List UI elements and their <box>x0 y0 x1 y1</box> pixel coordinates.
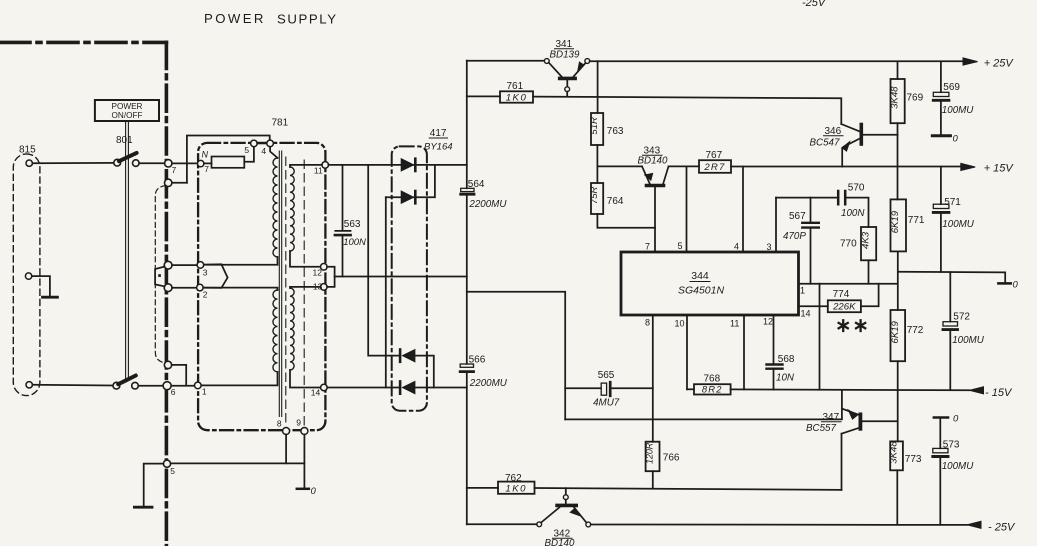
svg-text:226K: 226K <box>832 302 856 313</box>
capacitor 573 lead bottom <box>939 458 941 524</box>
wire pin7 to fuse <box>204 162 212 164</box>
secondary winding lower <box>290 288 294 370</box>
wire +25V to 763 <box>597 61 599 113</box>
wire node7 to transformer pin 7 <box>172 162 197 164</box>
capacitor 568 plates <box>767 365 783 369</box>
wire pin4 to primary coil <box>270 147 277 158</box>
svg-text:ON/OFF: ON/OFF <box>112 111 143 120</box>
wire 764 bottom to pin7 line <box>597 214 655 228</box>
wire 769 to 771 <box>897 123 899 199</box>
pin 1 line <box>799 283 898 285</box>
resistor 772 <box>891 310 906 361</box>
svg-text:POWER: POWER <box>204 11 266 26</box>
capacitor 570 <box>838 191 845 204</box>
transistor 346 emitter <box>844 139 860 147</box>
svg-text:BD139: BD139 <box>550 50 581 61</box>
node X2 on chassis <box>164 284 172 292</box>
ground bar 0 right <box>998 282 1010 285</box>
transformer pin 13 <box>321 284 328 291</box>
svg-text:8: 8 <box>645 318 650 328</box>
svg-text:6K19: 6K19 <box>890 320 901 343</box>
transistor 342 collector node <box>586 522 591 527</box>
svg-text:772: 772 <box>907 325 924 336</box>
wire 565 line right <box>612 387 653 389</box>
wire 763/764 junction to 343 emitter <box>597 165 642 167</box>
chassis ground bar <box>134 506 152 509</box>
svg-text:567: 567 <box>789 211 806 222</box>
svg-text:3: 3 <box>203 268 208 278</box>
svg-text:766: 766 <box>663 453 680 464</box>
wire 762 rail left <box>467 487 498 489</box>
svg-text:770: 770 <box>840 239 857 250</box>
resistor 762 <box>498 482 535 494</box>
svg-text:1K0: 1K0 <box>506 92 528 103</box>
transformer pin 12 <box>321 264 328 271</box>
svg-text:BY164: BY164 <box>424 142 453 153</box>
svg-text:1: 1 <box>800 286 805 296</box>
diode D1 <box>401 159 413 171</box>
wire 565-net to 347 emitter branch <box>565 390 842 419</box>
svg-text:0: 0 <box>953 134 959 145</box>
transistor 342 emitter node <box>537 522 542 527</box>
capacitor 572 plates <box>943 322 958 326</box>
wire 763 to 764 <box>596 145 598 183</box>
svg-text:14: 14 <box>801 309 811 319</box>
pin 11 stub <box>743 315 745 390</box>
transformer pin 4 <box>267 140 274 147</box>
transformer pin 11 <box>322 162 329 169</box>
capacitor 573 lead <box>939 419 941 449</box>
svg-text:815: 815 <box>19 145 36 156</box>
wire 773 to -25V rail <box>896 470 898 524</box>
secondary winding upper <box>290 167 294 251</box>
wire pin8 down to node5 line <box>285 435 287 464</box>
wire switch A to terminal 7 <box>139 162 165 164</box>
wire 770 to pin1 line <box>868 260 870 283</box>
svg-text:568: 568 <box>778 354 795 365</box>
svg-text:2R7: 2R7 <box>703 162 725 173</box>
svg-text:762: 762 <box>505 473 522 484</box>
svg-text:761: 761 <box>507 81 524 92</box>
resistor 771 <box>891 199 907 251</box>
transistor 342 base node <box>563 495 568 500</box>
node 5 on chassis <box>163 460 170 467</box>
chassis dash-dot border top <box>0 41 166 45</box>
pin 10 stub <box>686 315 688 389</box>
transistor 341 <box>549 63 562 77</box>
primary winding lower <box>273 290 278 372</box>
svg-text:11: 11 <box>730 319 739 329</box>
svg-text:801: 801 <box>116 135 133 146</box>
wire pin11 to bridge input line <box>329 164 467 166</box>
svg-text:BC547: BC547 <box>810 138 841 149</box>
wire 815 bottom to switch <box>32 384 113 387</box>
svg-text:2: 2 <box>203 290 208 300</box>
dot mark <box>158 274 161 277</box>
diode D3 <box>403 350 415 362</box>
resistor 763 <box>591 113 603 145</box>
-25V arrow <box>967 521 981 528</box>
svg-text:417: 417 <box>430 128 447 139</box>
svg-text:3K48: 3K48 <box>890 86 901 109</box>
capacitor 573 plates <box>933 448 948 452</box>
pin 4 stub <box>742 167 744 252</box>
main vertical lower (-V raw) <box>466 373 468 524</box>
transistor 346 base bar <box>859 125 863 145</box>
svg-text:- 25V: - 25V <box>988 522 1016 534</box>
svg-text:774: 774 <box>833 289 850 300</box>
screen 2 dashed <box>303 160 305 427</box>
pin 8 stub + 766 chain <box>652 315 654 442</box>
wire node A detour <box>172 365 187 386</box>
terminal 815 middle <box>25 273 31 279</box>
IC 344 <box>621 252 799 315</box>
-15V arrow <box>969 387 983 394</box>
svg-text:6K19: 6K19 <box>890 210 901 233</box>
svg-text:100MU: 100MU <box>942 461 975 472</box>
node X1 on chassis <box>164 261 172 269</box>
transistor 341 base node <box>565 87 570 92</box>
pin 5 stub <box>686 166 688 252</box>
wire pin9 down to 0 ground <box>303 435 305 488</box>
transistor 343 <box>642 166 650 184</box>
asterisks ** <box>839 320 866 331</box>
svg-text:4K3: 4K3 <box>861 231 872 249</box>
wire secondary upper to pin 12 <box>290 251 321 267</box>
capacitor 565 plates <box>601 383 606 395</box>
-25V rail left <box>467 523 537 525</box>
capacitor 571 plates <box>933 204 949 208</box>
POWER ON/OFF box <box>95 100 159 121</box>
resistor 769 <box>891 79 905 123</box>
wire pin13 to secondary lower <box>290 287 321 288</box>
transistor 342 diagonals <box>541 507 560 522</box>
switch 801 pole A contact <box>133 160 140 167</box>
svg-text:7: 7 <box>645 242 650 252</box>
resistor chain vertical top <box>897 61 899 79</box>
wire 762 rail right to 347 collector <box>535 488 842 490</box>
svg-text:769: 769 <box>907 93 924 104</box>
wire node5 to screen terminals 8 and 9 <box>171 462 305 464</box>
wire D2 anode to AC2 vertical <box>386 196 401 198</box>
wire base rail 761 left <box>467 95 500 97</box>
screen 1 dashed <box>285 157 287 427</box>
svg-text:4MU7: 4MU7 <box>593 398 620 409</box>
svg-text:2200MU: 2200MU <box>469 378 508 389</box>
wire center tap 12/13 bracket <box>327 267 335 287</box>
pin 3 stub <box>775 198 777 252</box>
svg-text:569: 569 <box>943 82 960 93</box>
svg-text:767: 767 <box>706 150 723 161</box>
svg-text:1K0: 1K0 <box>505 483 527 494</box>
capacitor 564 plates <box>461 188 474 191</box>
svg-text:BD140: BD140 <box>638 156 669 167</box>
svg-text:+ 15V: + 15V <box>984 163 1015 175</box>
svg-text:771: 771 <box>908 215 925 226</box>
svg-text:POWER: POWER <box>112 102 143 111</box>
transistor 341 emitter node <box>585 59 590 64</box>
ground bar 0 below pin9 <box>297 488 309 491</box>
svg-text:573: 573 <box>943 440 960 451</box>
svg-text:7: 7 <box>204 164 209 174</box>
fuse N <box>212 157 245 168</box>
transistor 346 collector wire <box>841 124 860 132</box>
svg-text:51R: 51R <box>589 117 600 135</box>
switch 801 pole A pivot <box>114 159 121 166</box>
capacitor 566 plates <box>460 364 473 367</box>
transformer core <box>279 151 281 417</box>
-25V rail right <box>591 524 967 526</box>
svg-text:763: 763 <box>607 126 624 137</box>
svg-text:571: 571 <box>944 197 961 208</box>
capacitor 571 lead bottom <box>940 214 942 272</box>
capacitor 567 lead <box>810 198 812 222</box>
transistor 347 collector <box>842 428 859 434</box>
switch 801 pole B contact <box>132 382 139 389</box>
wire 766 bottom <box>652 471 654 488</box>
transformer pin 7 <box>198 160 204 166</box>
svg-text:5: 5 <box>244 145 249 155</box>
capacitor 567 lead bottom <box>810 229 812 284</box>
chassis dash-dot border vertical <box>165 42 169 546</box>
0 bar above 573 <box>934 416 948 419</box>
capacitor 563 lead bottom <box>342 236 344 276</box>
svg-text:3: 3 <box>767 242 772 252</box>
svg-text:7: 7 <box>172 165 177 175</box>
svg-text:BD140: BD140 <box>545 538 576 546</box>
capacitor 563 lead top <box>342 165 344 230</box>
pin 7 stub <box>654 187 656 252</box>
transistor 347 base wire <box>862 420 897 422</box>
wire primary upper to pin 3 <box>204 257 277 265</box>
svg-text:4: 4 <box>261 146 266 156</box>
wire link node to selector vertical <box>172 182 187 184</box>
svg-text:768: 768 <box>704 374 721 385</box>
wire switch B through node 6 to transformer pin 1 <box>138 385 194 387</box>
svg-text:100MU: 100MU <box>942 219 975 230</box>
transformer pin 9 <box>301 428 308 435</box>
ground bar at 815 <box>43 296 58 299</box>
wire fuse to terminal 5 <box>244 147 254 162</box>
resistor 767 <box>699 160 731 173</box>
svg-text:8: 8 <box>277 419 282 429</box>
svg-text:SG4501N: SG4501N <box>678 285 725 297</box>
wire 774 right to pin1 line <box>861 284 879 307</box>
svg-text:0: 0 <box>1013 280 1019 291</box>
+25V rail left segment <box>467 60 545 62</box>
capacitor 569 lead <box>940 62 942 93</box>
svg-text:-25V: -25V <box>802 0 827 9</box>
transformer pin 1 <box>195 382 202 389</box>
AC2 vertical wire <box>385 197 387 387</box>
wire pin14 through D4 to main vertical <box>327 387 467 389</box>
svg-text:565: 565 <box>598 370 615 381</box>
svg-text:BC557: BC557 <box>806 423 837 434</box>
transformer pin 5 <box>251 140 258 147</box>
diode D2 <box>401 191 413 203</box>
node 7 on chassis line <box>165 160 172 167</box>
wire AC1 vertical to D3 <box>368 165 400 356</box>
terminal 815 top <box>26 160 32 166</box>
capacitor 572 lead bottom <box>949 331 951 390</box>
wire 815 middle to ground <box>32 276 50 296</box>
svg-text:3K48: 3K48 <box>889 441 900 464</box>
pin3 net to caps <box>776 197 837 199</box>
main vertical mid (0 net) <box>466 196 468 364</box>
wire primary lower to pin 1 <box>201 372 277 386</box>
svg-text:564: 564 <box>468 179 485 190</box>
+15V rail <box>731 166 961 168</box>
node A on chassis <box>164 361 171 368</box>
transformer pin 2 <box>197 284 204 291</box>
switch 801 pole B blade <box>118 376 136 385</box>
0 net wire from 771/772 junction <box>898 272 1005 283</box>
transformer pin 14 <box>321 384 328 391</box>
capacitor 563 plates <box>335 230 350 232</box>
svg-text:6: 6 <box>171 387 176 397</box>
wire D2 cathode up to D1 line <box>414 165 435 197</box>
wire secondary lower to pin 14 <box>290 370 321 388</box>
wire D3 anode down to D4 line <box>415 356 434 388</box>
wire center tap to main vertical <box>335 276 467 278</box>
wire node5 to chassis ground <box>144 464 164 506</box>
resistor 766 <box>646 442 660 472</box>
rectifier 417 outline <box>392 146 427 410</box>
svg-text:0: 0 <box>953 414 959 425</box>
svg-text:2200MU: 2200MU <box>468 199 507 210</box>
svg-text:570: 570 <box>848 183 865 194</box>
transistor 341 collector node <box>544 59 549 64</box>
transistor 347 emitter <box>842 409 858 415</box>
wire 570 to 770 <box>847 198 869 227</box>
svg-text:100MU: 100MU <box>942 105 975 116</box>
transistor 346 base wire <box>863 134 898 136</box>
svg-text:11: 11 <box>314 166 323 176</box>
svg-text:12: 12 <box>763 317 773 327</box>
resistor 774 <box>828 300 861 312</box>
svg-text:781: 781 <box>272 118 289 129</box>
wire 5 to 4 <box>257 142 267 144</box>
primary winding upper <box>273 158 278 257</box>
resistor 761 <box>500 91 533 102</box>
svg-text:+ 25V: + 25V <box>984 58 1015 70</box>
wire selector vertical to terminal 4 line <box>187 136 270 183</box>
svg-text:344: 344 <box>691 270 709 282</box>
+15V arrow <box>961 163 975 170</box>
svg-text:0: 0 <box>311 486 317 497</box>
svg-text:- 15V: - 15V <box>985 387 1013 399</box>
svg-text:1: 1 <box>202 387 207 397</box>
svg-text:120R: 120R <box>645 442 655 464</box>
wire X2 to transformer pin 2 <box>172 287 196 289</box>
svg-text:572: 572 <box>953 312 970 323</box>
svg-text:10N: 10N <box>776 373 795 384</box>
svg-text:14: 14 <box>311 388 321 398</box>
switch 801 linkage <box>126 121 129 379</box>
switch 801 pole B pivot <box>113 382 120 389</box>
node 6 on chassis <box>163 382 171 390</box>
wire 771 to 772 <box>897 251 899 310</box>
capacitor 572 lead <box>949 272 951 322</box>
svg-text:470P: 470P <box>783 231 806 242</box>
svg-text:566: 566 <box>469 355 486 366</box>
transformer pin 8 <box>283 428 290 435</box>
svg-text:100N: 100N <box>841 208 865 219</box>
svg-text:10: 10 <box>675 319 685 329</box>
svg-text:4: 4 <box>734 242 739 252</box>
wire pin1 net down to -15V rail <box>819 284 821 390</box>
wire 565 line left <box>565 387 601 389</box>
link bracket left of X nodes <box>155 267 165 287</box>
transistor 347 base bar <box>859 414 863 428</box>
pin 12 stub <box>773 315 775 363</box>
transformer 781 outline <box>198 143 325 430</box>
pin 14 line <box>799 305 828 307</box>
dashed selector loop <box>155 185 166 363</box>
svg-text:563: 563 <box>344 219 361 230</box>
svg-text:5: 5 <box>678 241 683 251</box>
transistor 342 base tick <box>565 488 567 495</box>
svg-text:SUPPLY: SUPPLY <box>277 12 338 27</box>
svg-text:773: 773 <box>905 454 922 465</box>
+25V arrow <box>963 58 978 65</box>
capacitor 571 lead <box>940 167 942 204</box>
wire 0-net to cap 565 <box>467 292 565 420</box>
wire X1 to transformer pin 3 <box>172 264 197 266</box>
svg-text:100MU: 100MU <box>952 335 985 346</box>
transistor 342 base bar <box>557 504 576 508</box>
svg-text:75R: 75R <box>589 186 600 204</box>
diode D4 <box>403 381 415 393</box>
wire 343 collector to 767 <box>669 165 700 167</box>
wire 768 left stub <box>687 388 694 390</box>
svg-text:764: 764 <box>607 196 624 207</box>
resistor 768 <box>694 384 731 394</box>
svg-text:12: 12 <box>313 267 323 277</box>
wire 815 top to switch <box>32 162 113 164</box>
capacitor 568 lead bottom <box>773 370 775 390</box>
connector 815 outline <box>13 154 40 396</box>
svg-text:5: 5 <box>170 466 175 476</box>
switch 801 pole A blade <box>119 153 137 161</box>
capacitor 569 lead bottom + 0 bar <box>940 102 942 134</box>
node link below 7 on chassis <box>165 179 172 186</box>
resistor 773 <box>890 441 903 470</box>
capacitor 567 plates <box>802 223 819 228</box>
transformer pin 3 <box>197 262 204 269</box>
+25V rail right segment <box>590 60 964 62</box>
wire 761 to 346 collector <box>533 97 841 124</box>
svg-text:N: N <box>202 150 209 160</box>
wire 772 to 773 <box>897 361 899 441</box>
terminal 815 bottom <box>26 382 32 388</box>
wire pin11 to secondary coil <box>290 165 322 167</box>
resistor 770 <box>861 227 876 260</box>
main raw supply vertical upper <box>466 61 468 189</box>
svg-text:100N: 100N <box>343 237 366 248</box>
resistor 764 <box>591 183 603 214</box>
wire pin2 to primary lower <box>203 288 277 290</box>
link bracket right of pins 3,2 <box>205 264 228 288</box>
capacitor 569 plates <box>933 92 949 96</box>
svg-text:8R2: 8R2 <box>702 384 723 395</box>
-15V rail <box>731 388 970 391</box>
svg-text:9: 9 <box>296 418 301 428</box>
